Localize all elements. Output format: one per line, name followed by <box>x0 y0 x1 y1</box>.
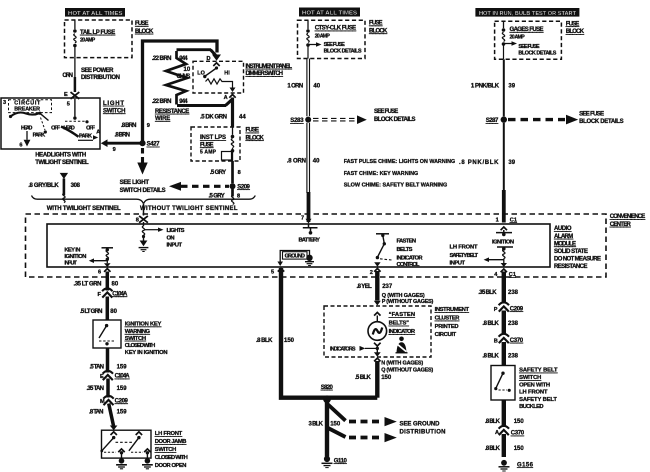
svg-text:INSTRUMENT PANEL: INSTRUMENT PANEL <box>246 64 293 70</box>
svg-text:40: 40 <box>313 84 320 90</box>
svg-text:OFF: OFF <box>51 125 61 131</box>
svg-text:S427: S427 <box>147 142 161 148</box>
svg-text:.35 BLK: .35 BLK <box>478 290 497 296</box>
svg-text:PARK: PARK <box>33 133 46 139</box>
svg-text:.8 BLK: .8 BLK <box>485 446 501 452</box>
svg-text:.8 BLK: .8 BLK <box>482 354 499 360</box>
svg-text:WIRE: WIRE <box>155 116 170 122</box>
svg-text:OHMS: OHMS <box>177 74 191 80</box>
svg-text:SEE FUSE: SEE FUSE <box>324 42 346 48</box>
svg-text:150: 150 <box>514 446 525 452</box>
svg-text:BLOCK DETAILS: BLOCK DETAILS <box>324 49 362 55</box>
svg-text:SEE GROUND: SEE GROUND <box>400 422 441 428</box>
svg-text:FASTEN: FASTEN <box>397 239 417 245</box>
svg-text:P (WITHOUT GAGES): P (WITHOUT GAGES) <box>382 299 434 305</box>
svg-text:FAST PULSE CHIME: LIGHTS ON W: FAST PULSE CHIME: LIGHTS ON WARNING <box>344 159 456 165</box>
svg-text:.5 TAN: .5 TAN <box>90 365 105 371</box>
svg-text:SAFETY BELT: SAFETY BELT <box>519 397 557 403</box>
svg-text:BLOCK: BLOCK <box>135 29 154 35</box>
svg-text:20 AMP: 20 AMP <box>315 33 331 39</box>
svg-text:944: 944 <box>179 56 188 62</box>
svg-text:BUCKLED: BUCKLED <box>519 404 543 410</box>
svg-text:7: 7 <box>301 216 304 222</box>
svg-text:RESISTANCE: RESISTANCE <box>155 109 189 115</box>
svg-text:.8 BLK: .8 BLK <box>485 419 501 425</box>
svg-text:40: 40 <box>313 158 320 164</box>
svg-text:SWITCH: SWITCH <box>103 108 126 114</box>
svg-text:INPUT: INPUT <box>167 243 183 249</box>
svg-text:HOT AT ALL TIMES: HOT AT ALL TIMES <box>302 11 357 17</box>
svg-text:SWITCH DETAILS: SWITCH DETAILS <box>120 188 166 194</box>
svg-text:.22 BRN: .22 BRN <box>152 56 172 62</box>
svg-text:LH FRONT: LH FRONT <box>155 431 183 437</box>
svg-text:BLOCK DETAILS: BLOCK DETAILS <box>374 117 416 123</box>
svg-text:E: E <box>64 92 68 98</box>
svg-text:G156: G156 <box>517 462 534 468</box>
svg-text:20 AMP: 20 AMP <box>510 35 526 41</box>
svg-text:LIGHTS: LIGHTS <box>167 228 185 234</box>
svg-text:GAGES FUSE: GAGES FUSE <box>510 27 544 33</box>
svg-text:.5 BLK: .5 BLK <box>355 375 371 381</box>
svg-text:ON: ON <box>167 236 175 242</box>
svg-text:S283: S283 <box>290 118 304 124</box>
svg-text:C104A: C104A <box>115 374 131 380</box>
svg-text:S820: S820 <box>321 385 334 391</box>
svg-text:INPUT: INPUT <box>450 261 466 267</box>
svg-text:INSTRUMENT: INSTRUMENT <box>435 307 470 313</box>
svg-text:FUSE: FUSE <box>369 21 383 27</box>
svg-text:.8 TAN: .8 TAN <box>89 410 104 416</box>
svg-text:C209: C209 <box>115 398 129 404</box>
svg-text:BELTS”: BELTS” <box>389 321 409 327</box>
svg-text:CONTROL: CONTROL <box>397 262 420 268</box>
svg-text:3: 3 <box>3 100 6 106</box>
svg-text:E: E <box>100 374 104 380</box>
svg-text:.8 BRN: .8 BRN <box>121 123 137 129</box>
svg-text:G110: G110 <box>334 458 348 464</box>
svg-text:SEE FUSE: SEE FUSE <box>518 44 540 50</box>
svg-text:DOOR OPEN: DOOR OPEN <box>155 463 187 469</box>
svg-text:C209: C209 <box>510 306 524 312</box>
svg-text:LIGHT: LIGHT <box>103 101 124 107</box>
svg-text:238: 238 <box>508 321 519 327</box>
svg-text:F: F <box>98 292 102 298</box>
svg-text:INDICATOR: INDICATOR <box>397 255 424 261</box>
svg-text:IGNITION KEY: IGNITION KEY <box>125 322 162 328</box>
svg-text:CENTER: CENTER <box>610 222 632 228</box>
svg-text:9: 9 <box>113 147 116 153</box>
svg-text:BLOCK: BLOCK <box>246 135 265 141</box>
svg-text:SAFETY BELT: SAFETY BELT <box>519 368 558 374</box>
svg-text:1 ORN: 1 ORN <box>287 84 303 90</box>
svg-text:238: 238 <box>508 290 519 296</box>
svg-text:5: 5 <box>67 101 70 107</box>
svg-text:Q (WITHOUT GAGES): Q (WITHOUT GAGES) <box>381 367 433 373</box>
svg-text:39: 39 <box>508 84 515 90</box>
svg-text:3 BLK: 3 BLK <box>309 421 324 427</box>
svg-text:8: 8 <box>136 218 139 224</box>
svg-text:39: 39 <box>508 160 515 166</box>
svg-text:PRINTED: PRINTED <box>435 324 459 330</box>
svg-text:1: 1 <box>496 217 499 223</box>
svg-text:FAST CHIME: KEY WARNING: FAST CHIME: KEY WARNING <box>344 171 419 177</box>
svg-text:CTSY-CLK FUSE: CTSY-CLK FUSE <box>315 26 357 32</box>
svg-text:GROUND: GROUND <box>285 253 305 259</box>
svg-text:IGNITION: IGNITION <box>64 254 86 260</box>
svg-text:DIMMER SWITCH: DIMMER SWITCH <box>246 71 284 77</box>
svg-text:DISTRIBUTION: DISTRIBUTION <box>81 75 120 81</box>
svg-text:150: 150 <box>381 375 392 381</box>
svg-text:BLOCK: BLOCK <box>566 29 585 35</box>
svg-text:.8 BRN: .8 BRN <box>115 132 131 138</box>
svg-text:BATTERY: BATTERY <box>299 238 321 244</box>
svg-text:5 AMP: 5 AMP <box>200 149 217 155</box>
svg-text:P: P <box>494 307 498 313</box>
svg-text:BELTS: BELTS <box>397 247 413 253</box>
svg-text:FUSE: FUSE <box>566 21 580 27</box>
svg-text:DOOR JAMB: DOOR JAMB <box>155 439 187 445</box>
svg-text:BLOCK DETAILS: BLOCK DETAILS <box>579 119 624 125</box>
svg-text:FUSE: FUSE <box>246 128 260 134</box>
svg-text:WARNING: WARNING <box>125 329 151 335</box>
svg-text:HOT AT ALL TIMES: HOT AT ALL TIMES <box>68 11 123 17</box>
svg-text:20 AMP: 20 AMP <box>80 38 96 44</box>
svg-text:AUDIO: AUDIO <box>554 226 572 232</box>
svg-text:150: 150 <box>284 338 295 344</box>
svg-text:1 PNK/BLK: 1 PNK/BLK <box>471 84 500 90</box>
svg-text:159: 159 <box>117 365 128 371</box>
svg-text:9: 9 <box>147 123 150 129</box>
svg-text:MODULE: MODULE <box>554 241 576 247</box>
svg-text:SAFETY BELT: SAFETY BELT <box>450 253 479 259</box>
svg-text:LO: LO <box>197 71 205 77</box>
svg-text:INDICATORS: INDICATORS <box>330 346 356 352</box>
svg-text:80: 80 <box>110 309 117 315</box>
svg-text:CLOSED WITH: CLOSED WITH <box>125 343 156 349</box>
svg-text:OPEN WITH: OPEN WITH <box>519 382 550 388</box>
svg-text:BLOCK: BLOCK <box>369 28 388 34</box>
svg-text:DISTRIBUTION: DISTRIBUTION <box>400 430 446 436</box>
svg-text:159: 159 <box>117 386 128 392</box>
svg-text:5: 5 <box>271 270 274 276</box>
svg-text:C1: C1 <box>510 217 517 223</box>
svg-text:FUSE: FUSE <box>135 21 149 27</box>
svg-text:SLOW CHIME: SAFETY BELT WARNIN: SLOW CHIME: SAFETY BELT WARNING <box>344 182 448 188</box>
svg-text:150: 150 <box>514 419 525 425</box>
svg-text:OFF: OFF <box>86 125 96 131</box>
svg-text:“FASTEN: “FASTEN <box>389 312 415 318</box>
svg-text:10: 10 <box>184 67 191 73</box>
svg-text:IGNITION: IGNITION <box>492 239 514 245</box>
svg-text:HEADLIGHTS WITH: HEADLIGHTS WITH <box>35 153 86 159</box>
svg-text:SWITCH: SWITCH <box>155 447 177 453</box>
svg-text:M: M <box>100 399 105 405</box>
svg-text:C1: C1 <box>509 272 516 278</box>
svg-text:C370: C370 <box>510 338 524 344</box>
svg-text:INDICATOR: INDICATOR <box>389 329 416 335</box>
svg-text:44: 44 <box>239 115 246 121</box>
svg-text:A: A <box>495 430 499 436</box>
svg-text:DO NOT MEASURE: DO NOT MEASURE <box>554 256 601 262</box>
svg-text:.22 BRN: .22 BRN <box>152 99 172 105</box>
svg-text:6: 6 <box>19 142 22 148</box>
svg-text:TWILIGHT SENTINEL: TWILIGHT SENTINEL <box>35 160 89 166</box>
svg-text:TAIL LP FUSE: TAIL LP FUSE <box>80 30 115 36</box>
svg-text:SEE FUSE: SEE FUSE <box>579 111 604 117</box>
svg-text:FUSE: FUSE <box>200 142 214 148</box>
svg-text:.8 YEL: .8 YEL <box>357 284 373 290</box>
svg-text:RESISTANCE: RESISTANCE <box>554 264 588 270</box>
svg-text:HOT IN RUN, BULB TEST OR START: HOT IN RUN, BULB TEST OR START <box>479 11 576 17</box>
svg-text:WITHOUT TWILIGHT SENTINEL: WITHOUT TWILIGHT SENTINEL <box>140 206 238 212</box>
svg-text:.8 PNK/BLK: .8 PNK/BLK <box>459 160 499 166</box>
svg-text:A: A <box>224 95 228 101</box>
svg-text:SOLID STATE: SOLID STATE <box>554 249 588 255</box>
svg-text:.8 BLK: .8 BLK <box>256 338 273 344</box>
svg-text:LH FRONT: LH FRONT <box>519 390 548 396</box>
svg-text:HEAD: HEAD <box>21 125 32 131</box>
svg-text:ALARM: ALARM <box>554 234 573 240</box>
svg-text:C104A: C104A <box>112 291 128 297</box>
svg-text:.5 GRY: .5 GRY <box>210 170 226 176</box>
svg-text:B: B <box>494 338 498 344</box>
svg-text:CONVENIENCE: CONVENIENCE <box>610 214 646 220</box>
svg-text:INST LPS: INST LPS <box>200 135 226 141</box>
svg-text:CLOSED WITH: CLOSED WITH <box>155 455 188 461</box>
svg-text:S209: S209 <box>237 184 250 190</box>
svg-text:LH FRONT: LH FRONT <box>450 245 478 251</box>
svg-text:Q (WITH GAGES): Q (WITH GAGES) <box>382 293 425 299</box>
svg-text:.35 TAN: .35 TAN <box>87 386 105 392</box>
svg-text:N (WITH GAGES): N (WITH GAGES) <box>381 360 423 366</box>
svg-text:80: 80 <box>112 282 119 288</box>
svg-text:CIRCUIT: CIRCUIT <box>435 332 457 338</box>
svg-text:.5 DK GRN: .5 DK GRN <box>200 115 227 121</box>
svg-text:INPUT: INPUT <box>64 260 77 266</box>
svg-text:HI: HI <box>224 71 230 77</box>
svg-text:SWITCH: SWITCH <box>519 375 541 381</box>
svg-text:ORN: ORN <box>62 73 73 79</box>
svg-text:238: 238 <box>508 354 519 360</box>
svg-text:SEE FUSE: SEE FUSE <box>374 109 398 115</box>
svg-text:PARK: PARK <box>79 134 92 140</box>
svg-text:KEY IN IGNITION: KEY IN IGNITION <box>125 350 168 356</box>
svg-text:150: 150 <box>330 421 341 427</box>
svg-text:159: 159 <box>117 410 128 416</box>
svg-text:SWITCH: SWITCH <box>125 336 146 342</box>
svg-text:C370: C370 <box>511 431 525 437</box>
svg-text:944: 944 <box>179 99 188 105</box>
svg-text:237: 237 <box>382 284 393 290</box>
svg-text:S287: S287 <box>486 118 499 124</box>
svg-text:.8 BLK: .8 BLK <box>482 321 499 327</box>
svg-text:.8 ORN: .8 ORN <box>287 158 306 164</box>
svg-text:BREAKER: BREAKER <box>14 107 40 113</box>
svg-text:SEE POWER: SEE POWER <box>81 68 114 74</box>
svg-text:2: 2 <box>370 270 373 276</box>
svg-text:WITH TWILIGHT SENTINEL: WITH TWILIGHT SENTINEL <box>47 206 121 212</box>
svg-text:A: A <box>96 129 100 135</box>
svg-text:SEE LIGHT: SEE LIGHT <box>120 180 150 186</box>
svg-text:KEY IN: KEY IN <box>64 247 80 253</box>
svg-text:CLUSTER: CLUSTER <box>435 316 461 322</box>
svg-text:308: 308 <box>71 183 81 189</box>
svg-text:.35 LT GRN: .35 LT GRN <box>74 282 102 288</box>
svg-text:8: 8 <box>238 170 241 176</box>
svg-text:BLOCK DETAILS: BLOCK DETAILS <box>518 50 556 56</box>
svg-text:6: 6 <box>98 269 101 275</box>
svg-text:.8 GRY/BLK: .8 GRY/BLK <box>28 183 59 189</box>
svg-text:.5 LT GRN: .5 LT GRN <box>80 309 103 315</box>
